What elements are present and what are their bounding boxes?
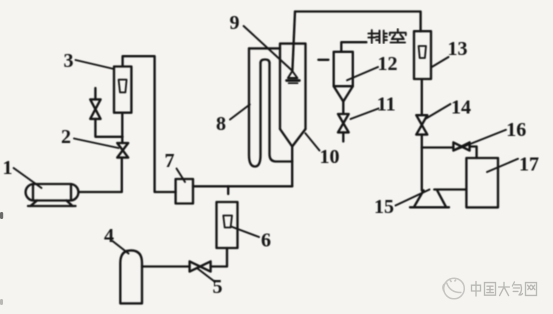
leader for 15	[396, 190, 430, 206]
valve V2a (valve 2)	[117, 143, 128, 158]
svg-text:10: 10	[320, 146, 340, 168]
wire box7 to column inlet	[193, 185, 292, 187]
wire pump outlet to valve2 riser	[79, 158, 122, 192]
leader for 5	[198, 269, 215, 282]
burner stand 15	[410, 190, 449, 207]
svg-text:6: 6	[261, 230, 271, 252]
label paikong (vent text)	[368, 29, 406, 43]
watermark text zhongguo daqi wang	[472, 282, 537, 296]
leader for 8	[230, 105, 250, 120]
svg-text:11: 11	[377, 93, 396, 115]
svg-text:2: 2	[61, 126, 71, 148]
wire valve5 to cylinder 4	[142, 265, 190, 267]
wire valve16 to analyzer 17	[470, 147, 477, 159]
U-tube 8 outer left wall and bottom bend	[249, 48, 261, 166]
svg-text:7: 7	[165, 150, 175, 172]
svg-text:3: 3	[64, 50, 74, 72]
leader for 6	[231, 227, 259, 238]
wire top feed line into nozzle	[292, 12, 295, 71]
leader for 3	[76, 60, 115, 69]
svg-text:14: 14	[451, 97, 471, 119]
wire branch to valve16	[422, 146, 454, 148]
flowmeter 13 body	[414, 31, 431, 79]
U-tube 8 inner right wall to column outlet	[270, 63, 293, 162]
svg-text:9: 9	[230, 12, 240, 34]
svg-text:17: 17	[519, 154, 539, 176]
wire flowmeter13 to valve14	[421, 79, 423, 115]
nozzle 9 spray head	[287, 71, 300, 83]
leader for 9	[244, 26, 292, 70]
U-tube 8 inner partition cap	[261, 60, 270, 64]
flowmeter 6 float	[223, 216, 232, 228]
svg-text:12: 12	[378, 53, 398, 75]
leader for 2	[74, 139, 119, 149]
compressor 1 body	[26, 184, 79, 201]
box 7 (buffer)	[176, 179, 193, 204]
wire valve2 to flowmeter3	[121, 114, 123, 143]
analyzer 17 box	[466, 158, 498, 207]
leader for 14	[426, 104, 451, 119]
leader for 4	[113, 241, 129, 254]
cyclone 12 cone	[334, 86, 353, 101]
leader for 1	[14, 168, 42, 188]
valve V11	[338, 114, 349, 132]
valve V5	[190, 261, 211, 271]
svg-text:1: 1	[3, 157, 13, 179]
leader for 12	[347, 67, 378, 80]
wire sample valve stub	[94, 88, 96, 99]
node branch to sample valve	[95, 119, 122, 137]
wire cyclone 12 vent	[341, 42, 366, 52]
leader for 13	[432, 57, 449, 67]
wire valve14 down to burner stand	[421, 135, 423, 191]
logo watermark circle	[443, 278, 464, 299]
node edge smudge 2	[0, 299, 3, 305]
flowmeter 3 body	[114, 67, 131, 113]
U-tube 8 top cap	[249, 47, 280, 49]
svg-text:15: 15	[374, 196, 394, 218]
valve unnumbered (sample valve)	[90, 99, 100, 119]
node broken link dash	[318, 59, 328, 61]
wire cyclone outlet to valve 11	[342, 102, 344, 115]
flowmeter 3 float	[119, 80, 127, 93]
column 10 shell	[280, 44, 306, 129]
svg-text:8: 8	[216, 113, 226, 135]
svg-text:13: 13	[448, 38, 468, 60]
leader for 7	[177, 169, 186, 183]
svg-text:4: 4	[104, 225, 114, 247]
wire valve 11 drain	[342, 132, 344, 141]
wire column outlet stem	[291, 147, 293, 187]
leader for 10	[305, 133, 319, 150]
column 10 cone bottom	[280, 129, 306, 147]
svg-text:16: 16	[506, 119, 526, 141]
wire flowmeter6 bottom to valve5	[211, 248, 227, 267]
compressor 1 stand	[28, 201, 76, 207]
valve V14	[416, 115, 427, 134]
wire top header to flowmeter 13	[295, 12, 421, 32]
cyclone 12 body	[334, 52, 353, 86]
flowmeter 6 body	[217, 202, 238, 248]
leader for 16	[455, 130, 506, 150]
svg-text:5: 5	[213, 276, 223, 298]
wire branch down to flowmeter 6	[227, 186, 229, 194]
leader for 11	[351, 109, 379, 120]
node edge smudge	[0, 212, 3, 219]
wire flowmeter3 top to downcomer	[123, 56, 176, 192]
leader for 17	[487, 159, 518, 172]
valve V16	[453, 142, 469, 150]
gas cylinder 4	[120, 250, 142, 303]
wire sampling line into 17	[434, 188, 466, 190]
flowmeter 13 float	[419, 46, 426, 58]
